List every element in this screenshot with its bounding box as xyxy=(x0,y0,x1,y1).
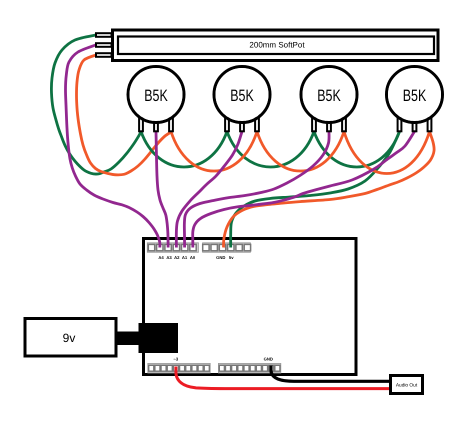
svg-text:A4: A4 xyxy=(158,255,164,260)
wire purple pot3 to A1 xyxy=(184,132,329,248)
wire purple pot4 to A0 xyxy=(193,132,415,248)
wire orange pot1 to pot2 xyxy=(171,132,257,172)
header analog A4-A0 xyxy=(147,243,198,260)
audio out box xyxy=(391,376,423,394)
potentiometer 1 B5K xyxy=(128,67,184,132)
wire orange pot4 to GND pin xyxy=(224,132,435,248)
wire orange pot2 to pot3 xyxy=(257,132,344,172)
wire purple SoftPot pin2 to A4 xyxy=(66,45,160,248)
battery connector xyxy=(118,332,139,346)
wire purple pot1 to A3 xyxy=(156,132,168,248)
svg-text:A0: A0 xyxy=(190,255,196,260)
header digital right xyxy=(218,363,280,373)
svg-text:9v: 9v xyxy=(63,331,76,345)
softpot pin 3 xyxy=(96,53,112,57)
wire green pot3 to pot4 xyxy=(314,132,400,167)
svg-text:A1: A1 xyxy=(182,255,188,260)
svg-text:Audio Out: Audio Out xyxy=(396,383,418,389)
wire green pot1 to pot2 xyxy=(141,132,227,167)
arduino board xyxy=(144,239,357,375)
wire green SoftPot pin1 to pot1 left pin xyxy=(51,35,141,174)
svg-text:B5K: B5K xyxy=(403,87,427,105)
svg-text:GND: GND xyxy=(264,357,273,362)
power jack xyxy=(139,323,179,353)
header power GND 5v xyxy=(203,243,251,260)
potentiometer 2 B5K xyxy=(214,67,270,132)
svg-text:B5K: B5K xyxy=(144,87,168,105)
softpot pin 2 xyxy=(96,43,112,47)
potentiometer 3 B5K xyxy=(301,67,357,132)
wire red pin ~3 to audio out xyxy=(176,367,390,389)
svg-text:A2: A2 xyxy=(174,255,180,260)
svg-text:B5K: B5K xyxy=(317,87,341,105)
softpot body xyxy=(113,30,439,61)
header digital left xyxy=(148,363,210,373)
wire orange pot3 to pot4 xyxy=(344,132,430,174)
svg-text:~3: ~3 xyxy=(173,357,178,362)
wire purple pot2 to A2 xyxy=(176,132,242,248)
wire orange SoftPot pin3 to pot1 right pin xyxy=(77,55,172,175)
wire black GND to audio out xyxy=(271,366,390,382)
svg-text:200mm SoftPot: 200mm SoftPot xyxy=(249,41,305,50)
battery 9v xyxy=(25,319,116,357)
wire green pot2 to pot3 xyxy=(227,132,314,167)
svg-text:GND: GND xyxy=(216,255,225,260)
svg-text:5v: 5v xyxy=(229,255,234,260)
wire green pot4 to 5v pin xyxy=(231,132,400,248)
svg-text:A3: A3 xyxy=(166,255,172,260)
svg-text:B5K: B5K xyxy=(230,87,254,105)
softpot pin 1 xyxy=(96,33,112,37)
potentiometer 4 B5K xyxy=(387,67,443,132)
